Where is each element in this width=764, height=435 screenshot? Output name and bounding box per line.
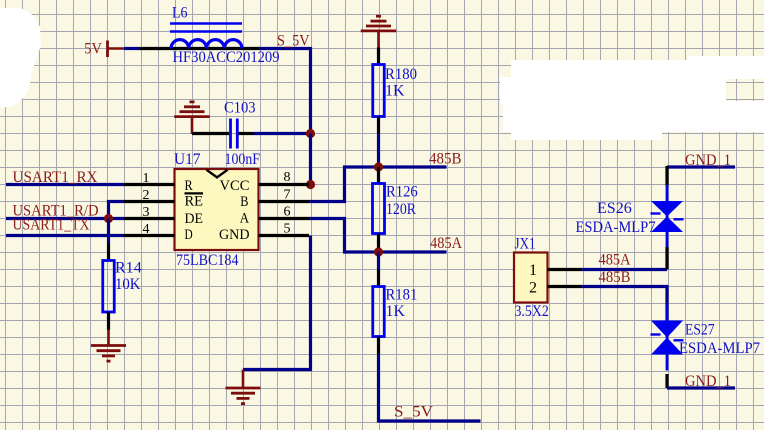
svg-text:VCC: VCC — [220, 178, 250, 194]
U17 pin name A — [240, 211, 249, 227]
svg-text:2: 2 — [143, 188, 150, 203]
R126 bottom lead — [377, 234, 380, 253]
U17 pin name RE — [185, 193, 204, 209]
svg-text:2: 2 — [529, 280, 537, 297]
svg-text:8: 8 — [284, 170, 291, 185]
wire R180 to 485B node — [377, 134, 380, 168]
pin number 8 — [284, 170, 291, 185]
wire ground to C103 — [192, 132, 229, 135]
JX1 pin number 1 — [529, 262, 537, 279]
svg-text:A: A — [240, 211, 249, 227]
svg-text:5V: 5V — [84, 41, 102, 58]
resistor R180 — [373, 65, 385, 117]
C103 value 100nF — [225, 151, 261, 168]
U17 pin 1 — [124, 183, 175, 186]
svg-text:USART1_TX: USART1_TX — [13, 217, 90, 234]
U17 designator — [174, 151, 201, 168]
net label 485B right — [599, 269, 631, 286]
wire node to R14 — [107, 219, 110, 244]
wire 485B right — [582, 287, 668, 305]
R126 value 120R — [386, 201, 416, 218]
JX1 value 3.5X2 — [515, 303, 549, 320]
svg-text:ESDA-MLP7: ESDA-MLP7 — [679, 340, 760, 357]
C103 designator — [224, 100, 256, 117]
L6 value HF30ACC201209 — [173, 49, 280, 66]
wire pin6 to 485A — [309, 219, 447, 253]
resistor R181 — [373, 287, 385, 337]
pin number 1 — [143, 171, 150, 186]
R181 bottom lead — [377, 337, 380, 354]
junction at C103/S_5V — [306, 129, 315, 138]
wire GND_1 top — [667, 165, 735, 168]
ES27 bottom lead — [665, 374, 668, 388]
ground above R180 — [361, 16, 397, 47]
U17 pin 7 — [259, 200, 310, 203]
wire R181 to S_5V bottom — [379, 354, 481, 422]
svg-text:R126: R126 — [386, 184, 418, 201]
U17 pin name VCC — [220, 178, 250, 194]
wire S_5V top — [259, 49, 311, 134]
svg-text:GND_1: GND_1 — [685, 152, 731, 169]
TVS diode ES26 — [651, 185, 684, 248]
svg-text:L6: L6 — [172, 5, 188, 22]
resistor R14 — [103, 261, 115, 313]
svg-text:S_5V: S_5V — [394, 404, 433, 421]
wire pin5 to ground — [243, 236, 311, 370]
svg-text:10K: 10K — [115, 276, 141, 293]
svg-text:120R: 120R — [386, 201, 416, 218]
svg-text:GND_1: GND_1 — [685, 373, 731, 390]
JX1 pin number 2 — [529, 280, 537, 297]
svg-text:GND: GND — [219, 227, 250, 243]
U17 pin 4 — [124, 234, 175, 237]
U17 pin 8 — [259, 183, 310, 186]
svg-text:4: 4 — [143, 222, 150, 237]
svg-text:5: 5 — [284, 222, 291, 237]
svg-text:1: 1 — [143, 171, 150, 186]
U17 pin name D — [185, 227, 193, 243]
svg-text:100nF: 100nF — [225, 151, 261, 168]
R14 designator — [115, 260, 142, 277]
JX1 designator — [515, 236, 536, 253]
U17 value 75LBC184 — [176, 252, 239, 269]
svg-text:S_5V: S_5V — [277, 33, 310, 50]
junction at R14 node — [104, 214, 113, 223]
net label USART1_TX — [13, 217, 90, 234]
U17 pin 6 — [259, 217, 310, 220]
wire USART1_R/D — [6, 217, 124, 220]
R180 designator — [385, 66, 417, 83]
svg-text:485B: 485B — [429, 151, 462, 168]
wire RE to node — [109, 202, 125, 219]
svg-text:DE: DE — [185, 211, 204, 227]
pin number 2 — [143, 188, 150, 203]
ES27 designator — [685, 322, 715, 339]
net label USART1_RX — [13, 169, 98, 186]
svg-text:ESDA-MLP7: ESDA-MLP7 — [576, 219, 656, 236]
JX1 pin 2 — [548, 285, 582, 288]
resistor R126 — [373, 184, 385, 234]
L6 designator — [172, 5, 188, 22]
TVS diode ES27 — [651, 305, 684, 371]
svg-text:RE: RE — [185, 194, 204, 210]
ground below R14 — [91, 330, 126, 362]
R181 designator — [386, 287, 418, 304]
svg-text:1: 1 — [529, 262, 537, 279]
U17 pin 5 — [259, 234, 310, 237]
net label GND_1 bottom — [685, 373, 731, 390]
junction at 485B — [374, 162, 383, 171]
net label 485A right — [599, 252, 631, 269]
junction at VCC pin — [306, 180, 315, 189]
U17 pin name R — [185, 178, 193, 194]
U17 pin name DE — [185, 211, 204, 227]
svg-text:USART1_RX: USART1_RX — [13, 169, 98, 186]
svg-text:C103: C103 — [224, 100, 256, 117]
ES26 value ESDA-MLP7 — [576, 219, 656, 236]
R14 top lead — [107, 244, 110, 261]
wire GND_1 bottom — [667, 386, 735, 389]
svg-text:ES26: ES26 — [597, 200, 632, 217]
R14 value 10K — [115, 276, 141, 293]
svg-text:485A: 485A — [430, 235, 462, 252]
svg-text:R181: R181 — [386, 287, 418, 304]
svg-text:U17: U17 — [174, 151, 201, 168]
ES26 bottom lead — [665, 247, 668, 270]
svg-text:7: 7 — [284, 188, 291, 203]
svg-text:R: R — [185, 178, 193, 194]
pin number 7 — [284, 188, 291, 203]
pin number 4 — [143, 222, 150, 237]
net label S_5V top — [277, 33, 310, 50]
svg-text:HF30ACC201209: HF30ACC201209 — [173, 49, 280, 66]
ES26 top lead — [665, 166, 668, 186]
svg-text:JX1: JX1 — [515, 236, 536, 253]
R126 designator — [386, 184, 418, 201]
svg-text:1K: 1K — [385, 83, 405, 100]
U17 pin name GND — [219, 227, 250, 243]
ground at C103 — [174, 102, 210, 134]
R180 value 1K — [385, 83, 405, 100]
pin number 5 — [284, 222, 291, 237]
connector JX1 — [514, 253, 548, 303]
JX1 pin 1 — [548, 268, 582, 271]
pin number 3 — [143, 205, 150, 220]
capacitor C103 — [231, 119, 255, 149]
pin number 6 — [284, 205, 291, 220]
net label 485A left — [430, 235, 462, 252]
svg-text:B: B — [240, 194, 248, 210]
inductor L6 — [140, 24, 260, 49]
power port 5V — [84, 41, 124, 58]
svg-text:1K: 1K — [386, 303, 406, 320]
svg-text:R180: R180 — [385, 66, 417, 83]
net label S_5V bottom — [394, 404, 433, 421]
wire C103 to S_5V — [254, 132, 311, 135]
R181 top lead — [377, 270, 380, 287]
R180 top lead — [377, 48, 380, 65]
wire USART1_TX — [6, 234, 124, 237]
net label USART1_R/D — [13, 203, 99, 220]
svg-text:ES27: ES27 — [685, 322, 715, 339]
svg-text:3: 3 — [143, 205, 150, 220]
ES27 value ESDA-MLP7 — [679, 340, 760, 357]
wire 485A to R181 — [377, 252, 380, 270]
svg-text:R14: R14 — [115, 260, 142, 277]
U17 pin 2 — [124, 200, 175, 203]
wire pin7 to 485B — [309, 167, 447, 202]
R181 value 1K — [386, 303, 406, 320]
wire S_5V to VCC pin — [309, 134, 312, 185]
svg-text:485B: 485B — [599, 269, 631, 286]
R14 bottom lead — [107, 312, 110, 330]
U17 pin 3 — [124, 217, 175, 220]
U17 pin name B — [240, 194, 248, 210]
ES26 designator — [597, 200, 632, 217]
R180 bottom lead — [377, 117, 380, 134]
net label GND_1 top — [685, 152, 731, 169]
wire 5V to L6 — [124, 47, 140, 50]
wire 485A right — [582, 268, 668, 271]
svg-text:6: 6 — [284, 205, 291, 220]
svg-text:D: D — [185, 227, 193, 243]
IC U17 75LBC184 transceiver body — [175, 169, 259, 250]
wire USART1_RX — [6, 183, 124, 186]
junction at 485A — [374, 247, 383, 256]
net label 485B left — [429, 151, 462, 168]
R126 top lead — [377, 167, 380, 184]
ES27 top lead — [665, 305, 668, 321]
svg-text:3.5X2: 3.5X2 — [515, 303, 549, 320]
ground below U17 — [226, 370, 261, 404]
svg-text:485A: 485A — [599, 252, 631, 269]
svg-text:75LBC184: 75LBC184 — [176, 252, 239, 269]
